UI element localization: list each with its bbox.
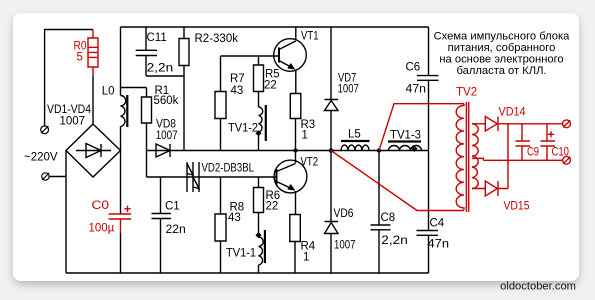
- VT1 emitter arrow: [288, 63, 295, 69]
- resistor R3: [290, 94, 301, 151]
- svg-text:VT2: VT2: [301, 157, 319, 169]
- capacitor C1: [152, 177, 172, 273]
- wire C0 branch: [120, 151, 122, 274]
- wire line A down to line B: [146, 151, 148, 178]
- inductor L5 core bar: [341, 140, 370, 142]
- winding TV1-2 core bar: [265, 105, 267, 141]
- node L0/R1 horizontal: [121, 87, 147, 89]
- svg-text:47n: 47n: [428, 238, 450, 250]
- svg-text:5: 5: [77, 52, 83, 64]
- svg-text:R2-330k: R2-330k: [195, 33, 239, 45]
- svg-text:1007: 1007: [338, 84, 359, 96]
- svg-text:R0: R0: [74, 40, 87, 52]
- line B (VT2 base line): [147, 176, 277, 178]
- output terminal minus: [563, 156, 571, 164]
- phase dot TV1-2: [255, 130, 261, 136]
- svg-text:TV2: TV2: [456, 87, 477, 99]
- RED circuit part: [88, 30, 570, 234]
- svg-text:VD2-DB3BL: VD2-DB3BL: [202, 163, 255, 175]
- winding TV1-2 bumps: [259, 107, 263, 151]
- capacitor C8: [371, 151, 391, 274]
- phase dot TV1-1: [255, 232, 261, 238]
- transistor VT1: [274, 39, 307, 72]
- capacitor C4: [417, 231, 439, 274]
- capacitor C10: [541, 124, 556, 161]
- svg-text:22: 22: [266, 201, 279, 213]
- resistor R8: [215, 177, 226, 273]
- inductor L5 bumps: [341, 145, 369, 150]
- svg-text:C6: C6: [406, 62, 421, 74]
- svg-text:1007: 1007: [156, 130, 178, 142]
- svg-text:VD6: VD6: [334, 208, 354, 220]
- svg-text:на основе электронного: на основе электронного: [439, 54, 563, 66]
- svg-text:TV1-1: TV1-1: [226, 248, 256, 260]
- winding TV1-3 bumps: [389, 146, 422, 151]
- inductor L0 core bar: [126, 95, 128, 127]
- capacitor C11: [136, 27, 157, 76]
- title text: [434, 30, 571, 77]
- red wire to TV2 primary bottom: [331, 151, 464, 211]
- svg-text:VD1-VD4: VD1-VD4: [47, 104, 92, 116]
- transformer TV2 primary winding: [456, 104, 464, 210]
- svg-text:питания, собранного: питания, собранного: [448, 42, 556, 54]
- winding TV1-1 core bar: [264, 230, 266, 263]
- wire input terminal2 to bridge left: [49, 176, 66, 178]
- resistor R2: [179, 27, 189, 66]
- svg-text:43: 43: [231, 85, 244, 97]
- svg-text:R7: R7: [230, 73, 245, 85]
- resistor R7: [215, 56, 226, 151]
- svg-text:1007: 1007: [334, 239, 356, 251]
- svg-text:2,2n: 2,2n: [147, 62, 174, 74]
- svg-text:L0: L0: [102, 86, 115, 98]
- capacitor C0: [109, 214, 132, 233]
- svg-text:VD15: VD15: [504, 201, 530, 213]
- secondary center tap wire: [472, 158, 483, 160]
- C0 plus sign: [124, 206, 130, 212]
- svg-text:100µ: 100µ: [89, 222, 115, 234]
- junction node VD7/VD6 on mid rail: [329, 148, 333, 152]
- transformer TV2 secondary winding: [472, 124, 478, 189]
- resistor R6: [254, 177, 264, 237]
- svg-text:C1: C1: [165, 200, 180, 212]
- line A (mid rail): [147, 150, 429, 152]
- svg-text:~220V: ~220V: [24, 152, 58, 164]
- diode VD14: [472, 117, 563, 132]
- resistor R4: [290, 215, 301, 274]
- svg-text:C0: C0: [92, 200, 110, 212]
- svg-text:балласта от КЛЛ.: балласта от КЛЛ.: [456, 65, 546, 77]
- junction node L5/TV1-3/C8 on mid rail: [377, 148, 381, 152]
- black labels: [24, 31, 449, 264]
- svg-text:L5: L5: [348, 129, 361, 141]
- svg-text:C11: C11: [147, 32, 167, 44]
- diode VD7: [325, 27, 339, 151]
- svg-text:560k: 560k: [154, 95, 179, 107]
- svg-text:C4: C4: [430, 218, 445, 230]
- bottom rail: [66, 272, 429, 274]
- capacitor C9: [516, 124, 531, 161]
- svg-text:1: 1: [302, 130, 308, 142]
- svg-text:oldoctober.com: oldoctober.com: [500, 280, 576, 292]
- svg-text:C10: C10: [552, 146, 570, 158]
- svg-text:C8: C8: [381, 212, 396, 224]
- winding TV1-1 bumps: [259, 237, 264, 273]
- svg-text:22n: 22n: [166, 224, 186, 236]
- transformer TV2 core bars: [466, 102, 468, 212]
- C10 plus sign: [548, 131, 554, 137]
- diac VD2-DB3BL: [187, 162, 199, 192]
- lower output rail: [483, 159, 562, 161]
- svg-text:22: 22: [264, 80, 277, 92]
- winding TV1-3 core bar: [388, 140, 421, 142]
- svg-text:VD8: VD8: [156, 119, 176, 131]
- svg-text:VD14: VD14: [499, 107, 527, 119]
- capacitor C6 and right vertical: [417, 27, 439, 231]
- bridge inner diode: [76, 144, 111, 158]
- phase dot TV1-3: [411, 146, 417, 152]
- top rail: [121, 26, 429, 28]
- bridge rectifier VD1-VD4 diamond: [66, 124, 121, 177]
- resistor R0: [88, 30, 98, 77]
- svg-text:TV1-2: TV1-2: [228, 123, 258, 135]
- svg-text:47n: 47n: [406, 84, 427, 96]
- diode VD15: [472, 124, 508, 196]
- wire input terminal1 to R0 top: [45, 30, 93, 127]
- svg-text:1: 1: [303, 252, 309, 264]
- resistor R5: [254, 56, 264, 107]
- wire bridge right corner up through L0 to top rail: [120, 27, 122, 151]
- wire C11/R2 node: [146, 66, 184, 151]
- svg-text:43: 43: [228, 212, 241, 224]
- VT2 emitter arrow: [288, 184, 295, 190]
- output terminal plus: [563, 120, 571, 128]
- junction node R3/VT2 collector on mid rail: [293, 148, 297, 152]
- svg-text:Схема импульсного блока: Схема импульсного блока: [434, 30, 571, 42]
- input terminal 1: [41, 126, 49, 134]
- svg-text:TV1-3: TV1-3: [390, 130, 421, 142]
- svg-text:1007: 1007: [60, 116, 86, 128]
- svg-text:2,2n: 2,2n: [381, 235, 408, 247]
- red labels: [74, 40, 570, 234]
- VT1 base line: [221, 55, 280, 57]
- transistor VT2: [274, 160, 307, 193]
- resistor R1: [142, 88, 152, 151]
- wire R0 bottom to bridge top: [92, 76, 94, 124]
- svg-text:VT1: VT1: [301, 31, 319, 43]
- red wire to TV2 primary top: [379, 104, 464, 151]
- wire bridge left corner down to bottom rail: [65, 151, 67, 274]
- diode VD6: [325, 151, 339, 274]
- diode VD8: [156, 144, 170, 157]
- input terminal 2: [42, 173, 50, 180]
- inductor L0 bumps: [121, 96, 126, 127]
- svg-text:R4: R4: [301, 241, 316, 253]
- svg-text:C9: C9: [527, 146, 539, 158]
